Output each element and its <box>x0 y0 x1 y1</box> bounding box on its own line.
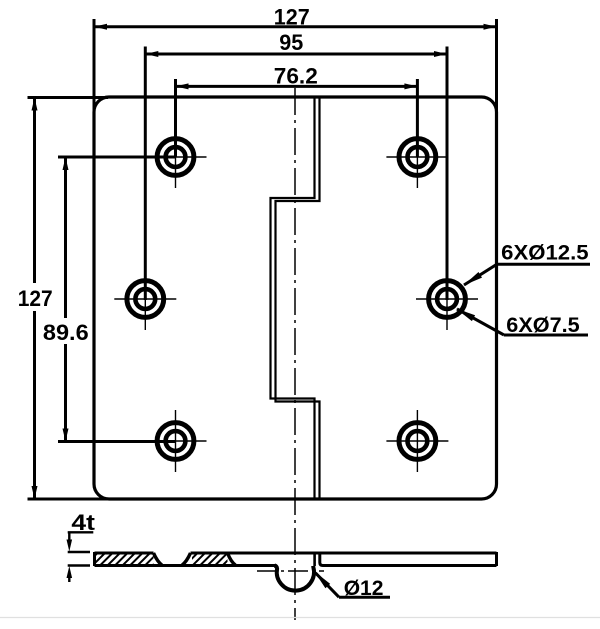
hole bottom-left <box>145 410 207 472</box>
leader 6X7.5 <box>456 309 588 338</box>
svg-text:95: 95 <box>279 30 303 55</box>
svg-text:127: 127 <box>274 4 310 29</box>
side view countersink right wall <box>182 553 191 565</box>
side view right end cap <box>495 552 498 566</box>
leader diameter 12 <box>314 571 390 600</box>
split line right leaf edge <box>276 97 320 499</box>
svg-text:89.6: 89.6 <box>43 320 89 345</box>
svg-text:76.2: 76.2 <box>274 64 318 89</box>
hole middle-left <box>114 268 176 330</box>
side view bottom surface left <box>95 564 276 567</box>
leader 6X12.5 <box>463 241 590 286</box>
side view knuckle curl <box>275 566 314 591</box>
knuckle horizontal centerline <box>257 570 324 572</box>
faint scan line bottom <box>0 617 600 619</box>
hole bottom-right <box>386 410 448 472</box>
side view top surface <box>95 552 497 555</box>
hole top-right <box>386 126 448 188</box>
dimension 76.2 <box>176 64 418 157</box>
side view right leaf edge and bottom <box>320 553 497 566</box>
svg-text:Ø12: Ø12 <box>344 576 384 600</box>
svg-text:127: 127 <box>18 286 53 311</box>
dimension 127 top <box>94 4 497 112</box>
side view curl end face <box>313 553 316 566</box>
side view section break wall <box>228 553 236 565</box>
svg-text:6XØ12.5: 6XØ12.5 <box>501 241 589 265</box>
split line left leaf edge <box>271 97 315 499</box>
side view countersink left wall <box>154 553 163 565</box>
svg-text:6XØ7.5: 6XØ7.5 <box>506 313 580 337</box>
hole middle-right <box>416 268 478 330</box>
svg-text:4t: 4t <box>71 510 95 535</box>
side view hatch left <box>85 554 165 566</box>
dimension 89.6 <box>43 157 175 442</box>
dimension 4t <box>67 510 96 582</box>
hinge plate outline <box>94 97 497 499</box>
vertical centerline <box>294 88 296 620</box>
hole top-left <box>145 126 207 188</box>
side view left end cap <box>93 552 96 566</box>
dimension 127 left <box>18 98 108 500</box>
dimension 95 <box>145 30 447 300</box>
side view hatch right <box>185 554 235 566</box>
